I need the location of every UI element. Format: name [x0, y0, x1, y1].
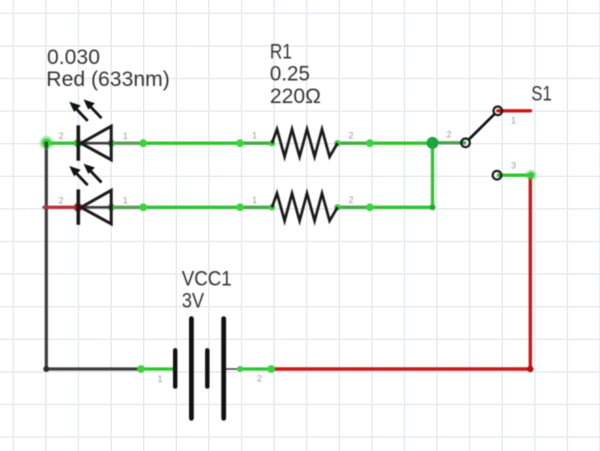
svg-text:S1: S1 — [531, 83, 552, 106]
svg-text:1: 1 — [252, 131, 257, 141]
svg-text:Red (633nm): Red (633nm) — [46, 68, 170, 91]
svg-text:1: 1 — [123, 195, 128, 205]
svg-text:2: 2 — [348, 195, 353, 205]
svg-text:0.25: 0.25 — [270, 63, 310, 86]
svg-text:2: 2 — [58, 195, 63, 205]
svg-text:1: 1 — [157, 374, 162, 384]
svg-text:1: 1 — [252, 195, 257, 205]
svg-text:1: 1 — [511, 116, 516, 126]
svg-text:2: 2 — [348, 131, 353, 141]
svg-text:3: 3 — [511, 161, 516, 171]
svg-text:1: 1 — [123, 131, 128, 141]
svg-text:VCC1: VCC1 — [182, 267, 232, 290]
svg-text:0.030: 0.030 — [47, 46, 100, 69]
svg-text:2: 2 — [257, 374, 262, 384]
svg-text:2: 2 — [446, 130, 451, 140]
svg-text:220Ω: 220Ω — [270, 85, 321, 108]
svg-text:R1: R1 — [270, 41, 292, 64]
svg-text:3V: 3V — [182, 289, 205, 312]
svg-text:2: 2 — [58, 131, 63, 141]
